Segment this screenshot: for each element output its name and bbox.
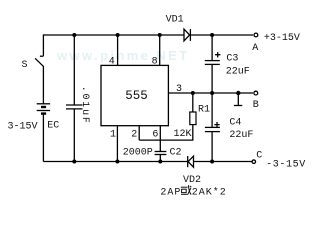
- svg-text:1: 1: [110, 129, 116, 140]
- svg-text:2000P: 2000P: [123, 147, 153, 158]
- svg-text:EC: EC: [47, 121, 59, 132]
- svg-text:8: 8: [152, 57, 158, 68]
- svg-text:2: 2: [131, 129, 137, 140]
- svg-text:2AK*2: 2AK*2: [192, 186, 227, 198]
- svg-text:4: 4: [109, 56, 115, 67]
- svg-text:22uF: 22uF: [229, 130, 253, 141]
- svg-text:12K: 12K: [174, 129, 192, 140]
- svg-text:VD1: VD1: [166, 14, 184, 25]
- svg-text:S: S: [22, 60, 28, 71]
- svg-text:3-15V: 3-15V: [8, 122, 38, 133]
- svg-text:B: B: [253, 100, 259, 111]
- svg-text:www.pinme.NET: www.pinme.NET: [56, 48, 190, 63]
- svg-text:+3-15V: +3-15V: [264, 33, 300, 44]
- svg-text:22uF: 22uF: [226, 67, 250, 78]
- svg-text:R1: R1: [198, 104, 210, 115]
- svg-text:.01uF: .01uF: [79, 86, 90, 125]
- svg-text:6: 6: [152, 129, 158, 140]
- svg-text:C3: C3: [226, 53, 238, 64]
- svg-text:C2: C2: [170, 148, 182, 159]
- svg-text:555: 555: [125, 89, 148, 103]
- svg-text:VD2: VD2: [183, 175, 201, 186]
- svg-text:2AP: 2AP: [160, 187, 181, 198]
- svg-text:C: C: [256, 151, 262, 162]
- svg-text:-3-15V: -3-15V: [266, 160, 306, 171]
- svg-text:A: A: [252, 43, 258, 54]
- svg-text:3: 3: [176, 84, 182, 95]
- svg-text:C4: C4: [229, 118, 241, 129]
